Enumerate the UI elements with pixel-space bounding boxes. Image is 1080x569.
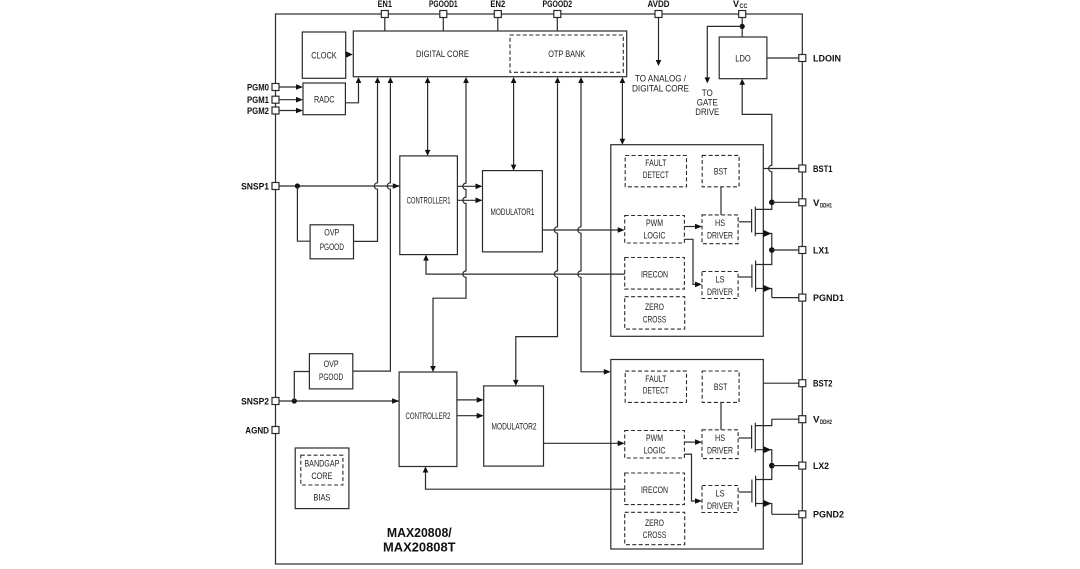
svg-text:SNSP2: SNSP2 bbox=[241, 396, 269, 407]
svg-text:PGM0: PGM0 bbox=[247, 82, 269, 93]
block HS DRIVER 2 (dashed) bbox=[702, 430, 738, 459]
wire DIGITAL CORE to power stage 2 (hops modulator1 output and irecon1 return) bbox=[578, 81, 607, 372]
svg-text:LS: LS bbox=[716, 275, 725, 286]
svg-text:LX1: LX1 bbox=[813, 245, 830, 256]
pin PGOOD1 bbox=[429, 0, 458, 31]
block LS DRIVER 2 (dashed) bbox=[702, 486, 738, 513]
block CLOCK bbox=[302, 32, 345, 78]
svg-text:CROSS: CROSS bbox=[643, 315, 667, 326]
svg-text:LOGIC: LOGIC bbox=[644, 231, 666, 242]
svg-text:DRIVE: DRIVE bbox=[695, 107, 719, 118]
pin EN1 bbox=[378, 0, 393, 31]
block IRECON 1 (dashed) bbox=[625, 258, 685, 290]
pin PGM1 bbox=[247, 95, 303, 106]
block MODULATOR1 bbox=[483, 171, 543, 252]
pin AGND bbox=[245, 425, 279, 436]
wire BST2 net to pin bbox=[763, 382, 799, 384]
wire MODULATOR1 output to PWM LOGIC 1 bbox=[542, 229, 620, 231]
svg-text:PGOOD1: PGOOD1 bbox=[429, 0, 458, 10]
svg-text:BST: BST bbox=[714, 166, 728, 177]
block DIGITAL CORE bbox=[353, 31, 626, 77]
wire MODULATOR2 output to PWM LOGIC 2 bbox=[544, 442, 621, 444]
block BST 1 (dashed) bbox=[702, 155, 739, 186]
junction SNSP2 node bbox=[292, 398, 297, 403]
wire SNSP1 to CONTROLLER1 bbox=[279, 185, 400, 187]
pin PGM2 bbox=[247, 106, 303, 117]
svg-text:DETECT: DETECT bbox=[643, 386, 669, 397]
wire LDO to LDOIN bbox=[767, 57, 799, 59]
wire PWM LOGIC 2 to HS DRIVER 2 bbox=[684, 441, 698, 443]
svg-text:PGM1: PGM1 bbox=[247, 95, 270, 106]
net label TO ANALOG / DIGITAL CORE bbox=[632, 73, 689, 94]
pin LX2 bbox=[799, 461, 829, 472]
svg-text:SNSP1: SNSP1 bbox=[241, 181, 270, 192]
block MODULATOR2 bbox=[484, 386, 544, 466]
pin PGND2 bbox=[799, 510, 844, 521]
pin PGOOD2 bbox=[543, 0, 573, 31]
wire LX2 node to pin bbox=[772, 465, 799, 467]
svg-text:DRIVER: DRIVER bbox=[707, 446, 733, 457]
wire SNSP2 to CONTROLLER2 bbox=[279, 400, 399, 402]
block CONTROLLER2 bbox=[399, 372, 457, 467]
transistor LS FET 2 bbox=[739, 466, 772, 515]
pin LX1 bbox=[799, 245, 830, 256]
wire LS FET 2 source to PGND2 pin bbox=[772, 513, 799, 515]
power stage block 2 bbox=[611, 360, 764, 550]
svg-text:DETECT: DETECT bbox=[643, 170, 669, 181]
svg-text:PWM: PWM bbox=[646, 433, 663, 444]
svg-text:AGND: AGND bbox=[245, 425, 269, 436]
wire DIGITAL CORE to power stage 1 (bidirectional) bbox=[621, 81, 623, 141]
wire to gate drive branch bbox=[707, 26, 742, 77]
block PWM LOGIC 2 (dashed) bbox=[625, 431, 685, 459]
svg-text:CORE: CORE bbox=[311, 471, 332, 482]
wire CONTROLLER1 to MODULATOR1 lower bbox=[457, 199, 478, 201]
wire DIGITAL CORE to MODULATOR1 (bidirectional) bbox=[513, 81, 515, 167]
svg-text:ZERO: ZERO bbox=[645, 518, 664, 529]
block LS DRIVER 1 (dashed) bbox=[702, 272, 738, 299]
svg-text:CLOCK: CLOCK bbox=[311, 51, 337, 62]
power stage block 1 bbox=[611, 145, 764, 337]
wire DIGITAL CORE to CONTROLLER1 (bidirectional) bbox=[427, 81, 429, 152]
svg-text:CONTROLLER1: CONTROLLER1 bbox=[407, 195, 451, 206]
net label TO GATE DRIVE bbox=[695, 88, 719, 118]
block ZERO CROSS 2 (dashed) bbox=[625, 512, 685, 544]
wire IRECON1 output to CONTROLLER1 bbox=[426, 259, 625, 275]
svg-text:PGM2: PGM2 bbox=[247, 106, 269, 117]
block OTP BANK (dashed) bbox=[510, 35, 623, 72]
pin EN2 bbox=[490, 0, 505, 31]
svg-text:ZERO: ZERO bbox=[645, 302, 664, 313]
svg-text:OTP BANK: OTP BANK bbox=[548, 49, 586, 60]
svg-text:MAX20808/: MAX20808/ bbox=[387, 526, 452, 540]
pin VDDH1 bbox=[799, 198, 833, 210]
svg-text:DRIVER: DRIVER bbox=[707, 287, 733, 298]
label MAX20808/MAX20808T bbox=[383, 526, 456, 555]
svg-text:BST1: BST1 bbox=[813, 164, 833, 175]
svg-text:IRECON: IRECON bbox=[641, 270, 668, 281]
svg-text:MODULATOR2: MODULATOR2 bbox=[492, 422, 537, 433]
pin AVDD bbox=[648, 0, 670, 66]
wire LDO input feed from VDDH1 node (hops BST1 wire) bbox=[742, 83, 772, 203]
svg-text:MAX20808T: MAX20808T bbox=[383, 541, 456, 555]
transistor HS FET 1 bbox=[739, 202, 772, 250]
svg-text:CC: CC bbox=[740, 3, 748, 10]
junction SNSP1 node bbox=[295, 183, 300, 188]
wire CONTROLLER1 to MODULATOR1 upper bbox=[457, 185, 478, 187]
svg-text:BST2: BST2 bbox=[813, 379, 833, 390]
svg-text:BIAS: BIAS bbox=[313, 492, 330, 503]
wire IRECON2 output to CONTROLLER2 bbox=[426, 471, 626, 490]
svg-text:MODULATOR1: MODULATOR1 bbox=[491, 207, 535, 218]
transistor HS FET 2 bbox=[739, 419, 772, 465]
wire LX1 node to pin bbox=[772, 249, 799, 251]
block HS DRIVER 1 (dashed) bbox=[702, 215, 738, 244]
svg-text:PGND2: PGND2 bbox=[813, 510, 844, 521]
svg-text:PWM: PWM bbox=[646, 218, 663, 229]
svg-text:FAULT: FAULT bbox=[645, 158, 666, 169]
wire PWM LOGIC 1 to LS DRIVER 1 bbox=[684, 239, 698, 284]
svg-text:AVDD: AVDD bbox=[648, 0, 670, 10]
junction LX2 node bbox=[769, 463, 775, 469]
svg-text:DDH1: DDH1 bbox=[820, 204, 832, 210]
svg-text:DRIVER: DRIVER bbox=[707, 501, 733, 512]
svg-text:LDOIN: LDOIN bbox=[813, 53, 841, 64]
junction VDDH1 node bbox=[769, 200, 775, 206]
transistor LS FET 1 bbox=[739, 250, 772, 298]
pin VCC bbox=[733, 0, 748, 37]
svg-text:PGOOD: PGOOD bbox=[320, 242, 344, 253]
wire BST 1 box to HS DRIVER 1 bbox=[720, 187, 722, 215]
svg-text:HS: HS bbox=[715, 433, 725, 444]
svg-text:HS: HS bbox=[715, 218, 725, 229]
pin SNSP2 bbox=[241, 396, 279, 407]
svg-text:BST: BST bbox=[714, 382, 728, 393]
block ZERO CROSS 1 (dashed) bbox=[625, 297, 685, 329]
svg-text:OVP: OVP bbox=[324, 227, 339, 238]
svg-text:LOGIC: LOGIC bbox=[644, 446, 666, 457]
wire CONTROLLER2 to MODULATOR2 lower bbox=[457, 415, 480, 417]
wire BST 2 box to HS DRIVER 2 bbox=[720, 402, 722, 429]
chip boundary MAX20808 bbox=[276, 14, 803, 564]
junction LX1 node bbox=[769, 247, 775, 253]
wire OVP PGOOD 1 output to DIGITAL CORE (hops SNSP1 wire) bbox=[354, 81, 378, 241]
pin PGND1 bbox=[799, 293, 845, 304]
block FAULT DETECT 2 (dashed) bbox=[625, 371, 686, 402]
svg-text:OVP: OVP bbox=[324, 359, 339, 370]
block OVP PGOOD 2 bbox=[309, 354, 352, 389]
wire OVP PGOOD 2 output to DIGITAL CORE (hops SNSP1 wire) bbox=[353, 81, 391, 371]
svg-text:LDO: LDO bbox=[735, 53, 751, 64]
pin SNSP1 bbox=[241, 181, 279, 192]
wire RADC output to DIGITAL CORE bbox=[345, 81, 358, 103]
wire PWM LOGIC 1 to HS DRIVER 1 bbox=[684, 226, 698, 228]
pin PGM0 bbox=[247, 82, 303, 93]
svg-text:EN1: EN1 bbox=[378, 0, 393, 10]
svg-text:DRIVER: DRIVER bbox=[707, 231, 733, 242]
block LDO bbox=[719, 37, 767, 79]
block CONTROLLER1 bbox=[400, 156, 458, 255]
block IRECON 2 (dashed) bbox=[625, 473, 685, 505]
svg-text:DDH2: DDH2 bbox=[820, 420, 832, 426]
pin VDDH2 bbox=[799, 415, 833, 427]
wire DIGITAL CORE to CONTROLLER2 (hops two ctrl1 outputs and irecon1 return) bbox=[433, 81, 466, 368]
block BANDGAP CORE (dashed) bbox=[301, 455, 343, 485]
wire BST1 net to pin bbox=[763, 168, 799, 170]
svg-text:EN2: EN2 bbox=[490, 0, 505, 10]
block BST 2 (dashed) bbox=[702, 371, 739, 402]
svg-text:FAULT: FAULT bbox=[645, 374, 666, 385]
wire VDDH2 node to pin bbox=[772, 418, 799, 420]
pin BST2 bbox=[799, 379, 833, 390]
wire VDDH1 node to pin bbox=[772, 201, 799, 203]
block OVP PGOOD 1 bbox=[310, 225, 353, 259]
svg-text:DIGITAL CORE: DIGITAL CORE bbox=[632, 83, 689, 94]
wire LS FET 1 source to PGND1 pin bbox=[772, 297, 799, 299]
block FAULT DETECT 1 (dashed) bbox=[625, 156, 686, 187]
svg-text:DIGITAL CORE: DIGITAL CORE bbox=[416, 49, 469, 60]
block PWM LOGIC 1 (dashed) bbox=[625, 216, 685, 244]
svg-text:BANDGAP: BANDGAP bbox=[304, 459, 339, 470]
wire CLOCK to DIGITAL CORE bbox=[346, 54, 348, 56]
svg-text:IRECON: IRECON bbox=[641, 485, 668, 496]
junction VCC branch bbox=[740, 24, 745, 29]
wire DIGITAL CORE to MODULATOR2 (hops modulator1 output and irecon1 return) bbox=[516, 81, 558, 382]
wire PWM LOGIC 2 to LS DRIVER 2 bbox=[684, 454, 698, 501]
svg-text:LX2: LX2 bbox=[813, 461, 829, 472]
wire SNSP1 node to OVP PGOOD 1 bbox=[297, 186, 310, 241]
block BIAS bbox=[295, 448, 349, 509]
svg-text:LS: LS bbox=[716, 489, 725, 500]
pin LDOIN bbox=[799, 53, 841, 64]
svg-text:CONTROLLER2: CONTROLLER2 bbox=[406, 411, 451, 422]
svg-text:PGOOD2: PGOOD2 bbox=[543, 0, 573, 10]
svg-text:CROSS: CROSS bbox=[643, 530, 667, 541]
wire SNSP2 node to OVP PGOOD 2 bbox=[294, 372, 309, 402]
svg-text:RADC: RADC bbox=[314, 94, 335, 105]
pin BST1 bbox=[799, 164, 833, 175]
block RADC bbox=[303, 83, 345, 115]
wire CONTROLLER2 to MODULATOR2 upper bbox=[457, 399, 480, 401]
svg-text:PGOOD: PGOOD bbox=[319, 372, 343, 383]
svg-text:PGND1: PGND1 bbox=[813, 293, 845, 304]
